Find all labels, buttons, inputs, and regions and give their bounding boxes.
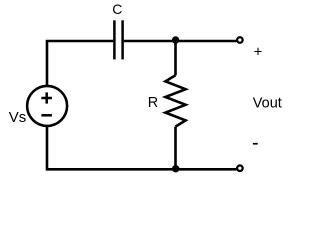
capacitor C <box>114 20 122 59</box>
terminal: + output <box>237 37 243 43</box>
node B junction dot (bottom) <box>172 165 179 172</box>
svg-text:C: C <box>112 1 122 17</box>
node A junction dot (top) <box>172 36 179 43</box>
wire: resistor bottom to node B <box>174 127 177 170</box>
svg-text:+: + <box>254 44 263 61</box>
label - (output polarity) <box>253 143 258 145</box>
terminal: - output <box>237 165 243 171</box>
wire: node A down to resistor top <box>174 41 177 75</box>
svg-text:R: R <box>148 95 158 111</box>
voltage source Vs <box>27 86 67 126</box>
resistor R (zigzag) <box>165 75 185 126</box>
wire: source top to capacitor left plate <box>47 41 113 86</box>
svg-text:Vs: Vs <box>9 109 27 126</box>
wire: source bottom to node B <box>47 126 176 169</box>
wire: node B to - terminal <box>176 168 237 171</box>
wire: capacitor right plate to + terminal <box>124 40 237 43</box>
svg-text:Vout: Vout <box>253 95 282 111</box>
